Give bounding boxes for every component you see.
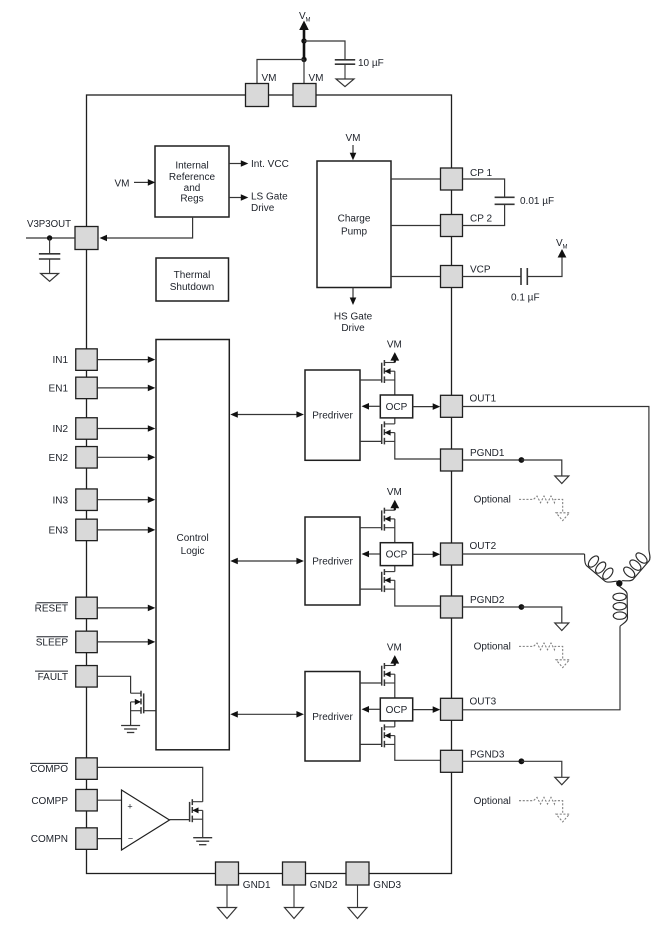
svg-text:Pump: Pump [341, 227, 368, 238]
svg-text:PGND1: PGND1 [470, 448, 505, 459]
transistor low-side FET 2 [382, 569, 395, 592]
pad EN1 [49, 377, 98, 399]
pad CP1 [441, 168, 493, 190]
wire PGND1 to junction [463, 459, 522, 461]
svg-text:M: M [306, 18, 311, 24]
wire PGND2 to ground [521, 607, 561, 623]
wire PGND2 to junction [463, 606, 522, 608]
wire predriver 1 to high-side gate [360, 379, 382, 381]
block OCP 3 [380, 698, 412, 721]
svg-text:Thermal: Thermal [174, 270, 211, 281]
arrow OCP 3 to OUT3 [413, 706, 441, 713]
wire control logic to predriver 3 (bidirectional) [230, 711, 304, 718]
svg-text:IN3: IN3 [52, 495, 68, 506]
svg-text:and: and [184, 183, 201, 194]
transistor Q2 comparator output [190, 799, 203, 822]
arrow OCP 1 to predriver [362, 403, 381, 410]
pad PGND2 [441, 595, 505, 618]
svg-text:Predriver: Predriver [312, 712, 353, 723]
svg-text:VM: VM [262, 73, 277, 84]
svg-text:OCP: OCP [386, 550, 408, 561]
wire low-side source to PGND2 [395, 580, 441, 606]
output HS Gate Drive [334, 288, 373, 335]
net VM at high-side FET 2 [387, 487, 402, 510]
wire C3 to CP2 [463, 204, 505, 225]
resistor optional R2 (dashed) [519, 643, 563, 659]
capacitor C2 on V3P3OUT [39, 238, 60, 259]
ground below Q1 [121, 726, 140, 733]
svg-text:COMPN: COMPN [31, 834, 68, 845]
net VM at high-side FET 1 [387, 339, 402, 362]
pad GND3 [346, 862, 402, 891]
inductor winding phase 2 [585, 554, 617, 582]
svg-text:EN1: EN1 [49, 384, 69, 395]
wire EN1 to control logic [97, 385, 155, 392]
transistor low-side FET 1 [382, 421, 395, 444]
wire PGND1 to ground [521, 460, 561, 476]
svg-text:Drive: Drive [251, 203, 275, 214]
svg-text:CP 1: CP 1 [470, 168, 492, 179]
output Int. VCC [229, 159, 289, 170]
svg-text:EN2: EN2 [49, 453, 69, 464]
pad IN3 [52, 489, 97, 511]
wire VM to pad VM right [303, 60, 305, 84]
svg-text:Charge: Charge [338, 214, 371, 225]
wire CP1 to C3 [463, 179, 505, 197]
pad V3P3OUT [75, 227, 98, 250]
wire PGND3 to junction [463, 760, 522, 762]
ground PGND1 [555, 476, 569, 484]
block Control Logic [156, 340, 229, 750]
wire predriver 2 to low-side gate [360, 588, 382, 590]
pad IN2 [52, 418, 97, 440]
net VM supply label [299, 11, 311, 24]
ground below GND3 [348, 885, 367, 919]
wire OUT1 to motor [463, 407, 649, 550]
ground below GND1 [218, 885, 237, 919]
wire OCP to low-side drain 2 [394, 566, 396, 572]
wire control logic to predriver 1 (bidirectional) [230, 411, 304, 418]
wire Q1 gate to control logic [144, 710, 156, 712]
svg-text:PGND3: PGND3 [470, 749, 505, 760]
wire predriver 3 to low-side gate [360, 743, 382, 745]
wire predriver 3 to high-side gate [360, 682, 382, 684]
node PGND1 junction [519, 457, 525, 463]
pad RESET [35, 597, 98, 619]
svg-text:Int. VCC: Int. VCC [251, 159, 289, 170]
svg-text:Predriver: Predriver [312, 411, 353, 422]
node PGND2 junction [519, 604, 525, 610]
wire IN2 to control logic [97, 425, 155, 432]
wire C4 to VM [527, 257, 562, 277]
svg-text:GND3: GND3 [373, 880, 401, 891]
ground below GND2 [285, 885, 304, 919]
capacitor C3 0.01 uF [495, 197, 515, 204]
svg-text:OUT1: OUT1 [470, 393, 497, 404]
wire OUT3 to motor [463, 626, 621, 710]
pad EN3 [49, 519, 98, 541]
svg-text:LS Gate: LS Gate [251, 191, 288, 202]
wire high-side source to OCP 2 [394, 519, 396, 543]
wire high-side source to OCP 1 [394, 371, 396, 395]
pad EN2 [49, 447, 98, 469]
capacitor C1 10 uF [335, 60, 355, 64]
wire comparator output to Q2 gate [170, 819, 190, 821]
svg-text:Drive: Drive [341, 323, 365, 334]
wire COMPP to comparator [97, 799, 121, 801]
svg-text:OCP: OCP [386, 402, 408, 413]
input VM to internal reference [115, 179, 156, 190]
wire internal reference to V3P3OUT [100, 217, 193, 241]
svg-text:VM: VM [387, 487, 402, 498]
node VM junction lower [301, 57, 306, 62]
label Optional 2 [474, 642, 511, 653]
block OCP 1 [380, 395, 412, 418]
svg-text:+: + [127, 802, 132, 812]
transistor high-side FET 1 [382, 360, 395, 383]
pad IN1 [52, 349, 97, 371]
output LS Gate Drive [229, 191, 288, 214]
wire charge pump to CP1 [391, 178, 440, 180]
svg-text:Logic: Logic [181, 546, 205, 557]
svg-text:Predriver: Predriver [312, 557, 353, 568]
pad CP2 [441, 214, 493, 237]
wire OUT2 to motor [463, 553, 585, 555]
svg-text:IN2: IN2 [52, 424, 68, 435]
pad FAULT [35, 666, 97, 688]
transistor Q1 fault open-drain [131, 691, 144, 714]
svg-text:VM: VM [387, 642, 402, 653]
block Thermal Shutdown [156, 258, 229, 301]
net VM at VCP arrow [556, 238, 568, 258]
svg-text:Optional: Optional [474, 642, 511, 653]
svg-text:M: M [563, 245, 568, 251]
svg-text:Internal: Internal [175, 161, 208, 172]
block Predriver 2 [305, 517, 360, 605]
wire VCP to C4 [463, 276, 522, 278]
svg-text:10 µF: 10 µF [358, 58, 384, 69]
wire RESET to control logic [97, 605, 155, 612]
svg-text:Shutdown: Shutdown [170, 282, 214, 293]
ground PGND2 [555, 623, 569, 631]
block OCP 2 [380, 543, 412, 566]
transistor low-side FET 3 [382, 724, 395, 747]
transistor high-side FET 3 [382, 663, 395, 686]
chip outline [87, 95, 452, 874]
wire COMPN to comparator [97, 838, 121, 840]
wire OCP to low-side drain 3 [394, 721, 396, 727]
svg-text:VM: VM [346, 133, 361, 144]
pad OUT2 [441, 541, 497, 565]
ground below Q2 [193, 838, 212, 845]
svg-text:RESET: RESET [35, 604, 68, 615]
svg-text:OUT3: OUT3 [470, 696, 497, 707]
svg-text:Reference: Reference [169, 172, 216, 183]
wire charge pump to CP2 [391, 225, 440, 227]
arrow OCP 1 to OUT1 [413, 403, 441, 410]
svg-text:COMPP: COMPP [31, 796, 68, 807]
net VM at high-side FET 3 [387, 642, 402, 665]
wire Q1 source to ground [130, 702, 132, 726]
svg-text:GND2: GND2 [310, 880, 338, 891]
wire control logic to predriver 2 (bidirectional) [230, 558, 304, 565]
svg-text:IN1: IN1 [52, 355, 68, 366]
pad COMPP [31, 789, 97, 811]
wire low-side source to PGND1 [395, 433, 441, 459]
transistor high-side FET 2 [382, 508, 395, 531]
node VM junction upper [301, 38, 306, 43]
wire V3P3OUT external [26, 237, 75, 239]
wire COMPO to Q2 drain [97, 767, 203, 801]
label 10 uF [358, 58, 384, 69]
svg-text:VM: VM [387, 339, 402, 350]
label 0.01 uF [520, 196, 554, 207]
arrow OCP 2 to predriver [362, 551, 381, 558]
svg-text:Control: Control [176, 533, 208, 544]
pad PGND1 [441, 448, 505, 471]
node motor star point [616, 580, 622, 586]
wire charge pump to VCP [391, 276, 440, 278]
wire predriver 1 to low-side gate [360, 440, 382, 442]
pad COMPN [31, 828, 97, 850]
wire VM to pad VM left [257, 60, 304, 84]
wire VM to C1 [304, 41, 345, 60]
svg-text:OCP: OCP [386, 705, 408, 716]
svg-text:OUT2: OUT2 [470, 541, 497, 552]
svg-text:−: − [128, 834, 133, 844]
svg-text:Optional: Optional [474, 495, 511, 506]
svg-text:0.1 µF: 0.1 µF [511, 293, 540, 304]
ground below C1 [336, 64, 354, 86]
inductor winding phase 1 [622, 550, 650, 581]
svg-text:HS Gate: HS Gate [334, 312, 373, 323]
ground optional R2 (dashed) [556, 660, 569, 668]
pad OUT1 [441, 393, 497, 417]
wire IN3 to control logic [97, 496, 155, 503]
label Optional 3 [474, 796, 511, 807]
svg-text:VCP: VCP [470, 265, 491, 276]
wire Q2 source to ground [202, 810, 204, 837]
ground below C2 [41, 259, 59, 281]
wire low-side source to PGND3 [395, 736, 441, 761]
wire FAULT to Q1 drain [97, 676, 130, 693]
svg-text:VM: VM [309, 73, 324, 84]
pad VM right [293, 73, 324, 107]
pad GND1 [216, 862, 272, 891]
wire IN1 to control logic [97, 356, 155, 363]
wire EN2 to control logic [97, 454, 155, 461]
svg-text:COMPO: COMPO [30, 764, 68, 775]
block Predriver 3 [305, 672, 360, 762]
svg-text:0.01 µF: 0.01 µF [520, 196, 554, 207]
block Charge Pump [317, 161, 391, 288]
svg-text:EN3: EN3 [49, 526, 69, 537]
wire OCP to low-side drain 1 [394, 418, 396, 424]
pad SLEEP [36, 631, 98, 653]
label V3P3OUT [27, 219, 71, 230]
input VM to charge pump [346, 133, 361, 160]
wire predriver 2 to high-side gate [360, 527, 382, 529]
block Predriver 1 [305, 370, 360, 460]
wire EN3 to control logic [97, 527, 155, 534]
wire PGND3 to ground [521, 761, 561, 777]
pad OUT3 [441, 696, 497, 720]
svg-text:V3P3OUT: V3P3OUT [27, 219, 71, 230]
resistor optional R1 (dashed) [519, 496, 563, 512]
svg-text:FAULT: FAULT [38, 672, 68, 683]
ground optional R3 (dashed) [556, 814, 569, 822]
resistor optional R3 (dashed) [519, 797, 563, 813]
label 0.1 uF [511, 293, 540, 304]
node V3P3OUT junction [47, 235, 52, 240]
pad COMPO [30, 758, 97, 780]
pad GND2 [283, 862, 339, 891]
op-amp U1 comparator [122, 790, 170, 850]
pad VM left [246, 73, 277, 107]
capacitor C4 0.1 uF [521, 268, 527, 285]
arrow OCP 2 to OUT2 [413, 551, 441, 558]
svg-text:Optional: Optional [474, 796, 511, 807]
arrow OCP 3 to predriver [362, 706, 381, 713]
node PGND3 junction [519, 758, 525, 764]
VM supply arrow [299, 21, 309, 60]
wire high-side source to OCP 3 [394, 674, 396, 698]
svg-text:SLEEP: SLEEP [36, 638, 69, 649]
ground PGND3 [555, 777, 569, 785]
wire SLEEP to control logic [97, 639, 155, 646]
label Optional 1 [474, 495, 511, 506]
pad PGND3 [441, 749, 505, 772]
pad VCP [441, 265, 491, 288]
svg-text:PGND2: PGND2 [470, 595, 505, 606]
svg-text:VM: VM [115, 179, 130, 190]
ground optional R1 (dashed) [556, 513, 569, 521]
inductor winding phase 3 [613, 586, 628, 626]
svg-text:Regs: Regs [180, 194, 203, 205]
block Internal Reference and Regs [155, 146, 229, 217]
svg-text:CP 2: CP 2 [470, 214, 492, 225]
svg-text:GND1: GND1 [243, 880, 271, 891]
